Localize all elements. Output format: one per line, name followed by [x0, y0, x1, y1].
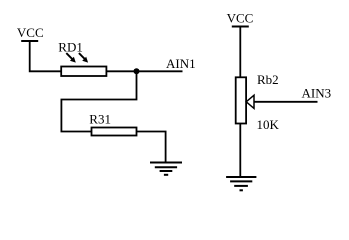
svg-text:VCC: VCC: [17, 25, 44, 40]
resistor RD1: [61, 67, 106, 77]
wire Rb2 to ground: [239, 124, 241, 177]
light arrow 1 (RD1 photoresistor): [66, 53, 76, 63]
power VCC (right): [227, 11, 254, 27]
svg-text:AIN3: AIN3: [302, 86, 332, 101]
wire node A to AIN1: [137, 70, 183, 72]
light arrow 2 (RD1 photoresistor): [79, 53, 88, 63]
svg-text:RD1: RD1: [58, 40, 83, 55]
wire VCC to Rb2: [239, 27, 241, 78]
junction node A: [134, 68, 140, 74]
resistor R31: [92, 128, 137, 136]
wire R31 to ground: [137, 132, 166, 163]
svg-text:Rb2: Rb2: [257, 72, 279, 87]
potentiometer Rb2: [236, 77, 246, 123]
ground (left): [150, 163, 182, 175]
ground (right): [226, 177, 256, 190]
svg-text:AIN1: AIN1: [166, 56, 196, 71]
svg-text:VCC: VCC: [227, 11, 254, 26]
wire node A down to R31: [61, 71, 136, 131]
wire AIN3 to wiper: [254, 101, 318, 103]
wire RD1 to node A: [106, 70, 136, 72]
wire VCC to RD1: [30, 41, 62, 71]
svg-text:R31: R31: [89, 112, 111, 127]
svg-text:10K: 10K: [257, 117, 280, 132]
wiper arrowhead (into Rb2): [246, 95, 254, 108]
power VCC (left): [17, 25, 44, 41]
